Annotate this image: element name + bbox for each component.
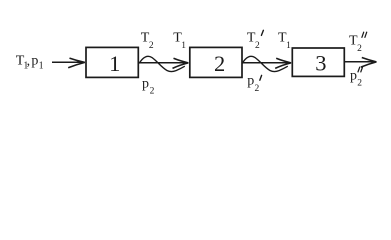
node p2' label	[247, 73, 261, 94]
wire output arrow	[344, 58, 376, 68]
block 2	[190, 47, 242, 77]
wire wavy arrow 1	[139, 56, 189, 71]
svg-text:1: 1	[181, 41, 186, 51]
block 1	[86, 47, 138, 77]
svg-text:p: p	[247, 73, 254, 88]
svg-text:2: 2	[255, 84, 260, 94]
svg-text:2: 2	[357, 78, 362, 88]
block 3	[292, 48, 344, 76]
node T1,p1 input label	[16, 54, 44, 72]
svg-text:1: 1	[109, 51, 120, 76]
wire wavy arrow 2	[242, 56, 291, 71]
svg-text:2: 2	[150, 86, 155, 96]
svg-text:3: 3	[315, 50, 326, 75]
node T1 label (before block 2)	[173, 30, 186, 51]
svg-text:,: ,	[27, 54, 31, 69]
svg-text:p: p	[350, 69, 357, 84]
wire input arrow	[52, 58, 85, 68]
svg-text:2: 2	[149, 41, 154, 51]
node T2'' label	[349, 32, 367, 54]
svg-text:2: 2	[255, 41, 260, 51]
svg-text:2: 2	[214, 51, 225, 76]
node p2'' label	[350, 67, 363, 88]
svg-text:1: 1	[39, 61, 44, 72]
svg-text:1: 1	[286, 41, 291, 51]
node p2 label	[142, 76, 155, 96]
node T2 label	[141, 30, 154, 51]
node T1 label (before block 3)	[278, 30, 291, 51]
svg-text:p: p	[142, 76, 149, 91]
svg-text:p: p	[31, 54, 38, 69]
svg-text:2: 2	[357, 44, 362, 54]
node T2' label	[247, 30, 264, 51]
